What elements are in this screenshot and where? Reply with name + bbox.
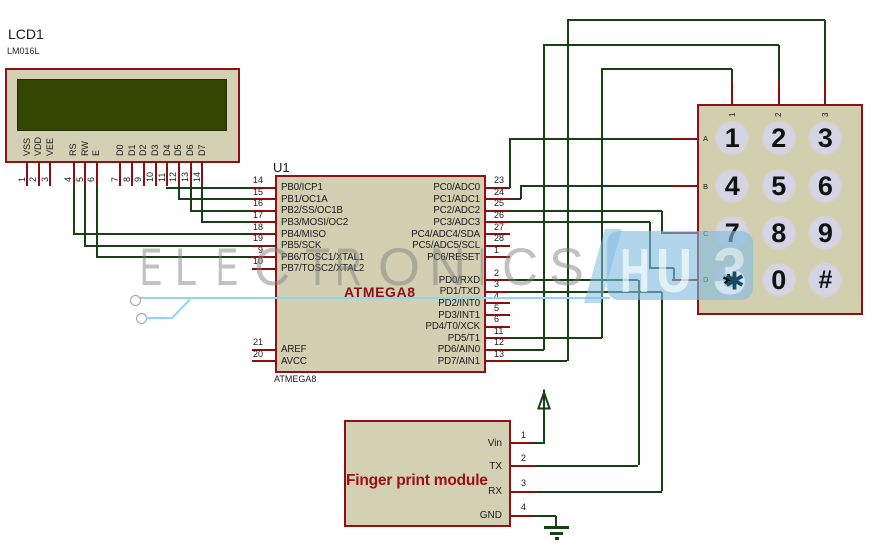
wire U1 PD1/TXD to fingerprint RX (510, 291, 662, 293)
U1 pin 4 (PD2/INT0) (486, 302, 510, 304)
U1 pin 5 (PD3/INT1) (486, 314, 510, 316)
U1 pin 21 (AREF) (252, 349, 275, 351)
LCD1 pin 3 (VEE) (45, 138, 55, 156)
LCD1 pin 12 (D5) (173, 144, 183, 156)
fingerprint module (344, 420, 511, 527)
keypad row A pin (672, 138, 697, 140)
keypad key 7 (715, 216, 749, 250)
U1 pin 20 (AVCC) (252, 360, 275, 362)
keypad row D pin (672, 279, 697, 281)
U1 pin 23 (PC0/ADC0) (486, 187, 510, 189)
keypad key 1 (715, 121, 749, 155)
keypad key 4 (715, 169, 749, 203)
LCD LCD1 LM016L (8, 26, 44, 42)
wire U1 PC0 to keypad row A (509, 139, 511, 188)
wire LCD RW to U1 PB5 (84, 186, 86, 246)
power symbol +V arrow (536, 389, 553, 410)
wire U1 PD0/RXD to fingerprint TX (510, 279, 639, 281)
wire LCD E to U1 PB6 (96, 186, 98, 257)
wire U1 PC2 to keypad row C (510, 210, 662, 212)
LCD screen (17, 79, 227, 131)
keypad key star (715, 263, 749, 297)
U1 pin 17 (PB3/MOSI/OC2) (252, 221, 275, 223)
keypad key 0 (762, 263, 796, 297)
fingerprint pin 2 (TX) (511, 465, 535, 467)
keypad key 3 (808, 121, 842, 155)
keypad key 5 (762, 169, 796, 203)
U1 pin 26 (PC3/ADC3) (486, 221, 510, 223)
LCD1 pin 10 (D3) (150, 144, 160, 156)
U1 pin 13 (PD7/AIN1) (486, 360, 510, 362)
keypad key 8 (762, 216, 796, 250)
LCD1 pin 14 (D7) (197, 144, 207, 156)
wire U1 PD5 to keypad column 1 (510, 337, 603, 339)
wire fingerprint GND to ground (533, 515, 556, 517)
wire U1 PC1 to keypad row B (510, 198, 521, 200)
LCD1 pin 11 (D4) (162, 144, 172, 156)
svg-text:H: H (620, 237, 650, 306)
keypad key 9 (808, 216, 842, 250)
U1 pin 2 (PD0/RXD) (486, 279, 510, 281)
keypad body (697, 104, 863, 315)
keypad key hash (808, 263, 842, 297)
U1 pin 10 (PB7/TOSC2/XTAL2) (252, 268, 275, 270)
wire LCD D5 to U1 PB1 (178, 186, 180, 199)
keypad column 1 pin (731, 81, 733, 105)
U1 pin 14 (PB0/ICP1) (252, 187, 275, 189)
wire LCD D7 to U1 PB3 (201, 186, 203, 222)
U1 pin 16 (PB2/SS/OC1B) (252, 210, 275, 212)
LCD1 pin 2 (VDD) (33, 137, 43, 156)
keypad row C pin (672, 232, 697, 234)
LCD1 pin 4 (RS) (68, 143, 78, 156)
wire U1 PC3 to keypad row D (510, 221, 651, 223)
U1 pin 1 (PC6/RESET) (486, 256, 510, 258)
U1 pin 12 (PD6/AIN0) (486, 349, 510, 351)
wire LCD D4 to U1 PB0 (166, 187, 252, 189)
op-amp U1 ATMEGA8 body (275, 175, 486, 373)
wire fingerprint Vin to power (533, 442, 545, 444)
U1 pin 28 (PC5/ADC5/SCL) (486, 245, 510, 247)
svg-text:U: U (656, 237, 692, 306)
keypad key 6 (808, 169, 842, 203)
U1 pin 19 (PB5/SCK) (252, 245, 275, 247)
U1 pin 6 (PD4/T0/XCK) (486, 326, 510, 328)
U1 pin 24 (PC1/ADC1) (486, 198, 510, 200)
LCD1 pin 13 (D6) (185, 144, 195, 156)
U1 pin 11 (PD5/T1) (486, 337, 510, 339)
U1 pin 18 (PB4/MISO) (252, 233, 275, 235)
U1 pin 27 (PC4/ADC4/SDA) (486, 233, 510, 235)
keypad key 2 (762, 121, 796, 155)
wire LCD D6 to U1 PB2 (190, 186, 192, 211)
U1 pin 15 (PB1/OC1A) (252, 198, 275, 200)
U1 pin 3 (PD1/TXD) (486, 291, 510, 293)
wire LCD RS to U1 PB4 (73, 186, 75, 234)
keypad column 2 pin (778, 81, 780, 105)
keypad row B pin (672, 185, 697, 187)
LCD1 pin 8 (D1) (127, 144, 137, 156)
LCD1 pin 7 (D0) (115, 144, 125, 156)
wire U1 PD7 to keypad column 3 (510, 360, 568, 362)
fingerprint pin 1 (Vin) (511, 442, 535, 444)
fingerprint pin 4 (GND) (511, 515, 535, 517)
wire U1 PD6 to keypad column 2 (510, 349, 544, 351)
ground (544, 526, 569, 529)
U1 pin 25 (PC2/ADC2) (486, 210, 510, 212)
U1 pin 9 (PB6/TOSC1/XTAL1) (252, 256, 275, 258)
LCD1 pin 5 (RW) (80, 141, 90, 156)
LCD1 pin 1 (VSS) (22, 138, 32, 156)
LCD1 pin 9 (D2) (138, 144, 148, 156)
keypad column 3 pin (824, 81, 826, 105)
fingerprint pin 3 (RX) (511, 491, 535, 493)
LCD1 pin 6 (E) (91, 150, 101, 156)
